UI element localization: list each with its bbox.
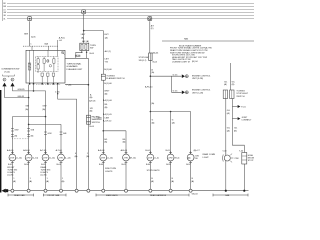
node switch right pin [86,52,87,53]
svg-text:A-F (1): A-F (1) [105,50,112,53]
svg-text:27W: 27W [59,158,63,160]
svg-text:30A: 30A [44,43,48,46]
svg-text:(A): (A) [86,155,89,158]
turn signal and hazard flasher unit box [26,50,65,83]
svg-text:SWITCH: SWITCH [92,122,101,124]
svg-text:G (T): G (T) [173,74,178,76]
svg-text:A-B-04: A-B-04 [98,149,105,152]
svg-text:(L-14): (L-14) [50,158,56,160]
wire left connector down to HMSL lamp [225,99,227,156]
wire lamp7 feed [149,112,151,155]
bus line 1 [7,2,254,4]
connector ticks col2 [27,129,30,137]
svg-text:(A): (A) [25,108,28,111]
svg-text:FRONT CAB: FRONT CAB [48,194,60,197]
svg-text:REAR: REAR [41,166,47,169]
svg-text:(L-14): (L-14) [33,158,39,160]
svg-text:LIGHT: LIGHT [203,157,210,159]
svg-text:(A): (A) [42,108,45,111]
svg-text:27W: 27W [43,158,47,160]
svg-text:(B): (B) [234,130,237,132]
wire switch right pin down [87,51,89,191]
ground bus [8,190,249,192]
bus labels [3,3,6,20]
flasher bottom pins [29,83,59,85]
svg-text:(A): (A) [227,129,230,132]
connector ticks col4 [60,132,63,134]
node G/B joins left turn wire [28,97,30,99]
svg-text:27W: 27W [168,158,172,160]
svg-text:(A): (A) [81,36,84,39]
svg-text:TURN SIGNAL: TURN SIGNAL [67,62,82,65]
legend text block [170,44,212,63]
svg-text:27W: 27W [148,158,152,160]
hazard switch column labels [104,50,112,71]
svg-text:(A): (A) [105,106,108,109]
svg-text:(A): (A) [105,92,108,95]
svg-text:CONNECT: CONNECT [241,120,252,122]
harness bracket 1 [8,194,34,197]
svg-text:GW: GW [3,12,6,14]
svg-text:FLASHER SWITCH: FLASHER SWITCH [106,77,125,80]
label STOPLIGHT SW [139,57,151,62]
svg-text:STOPLIGHT: STOPLIGHT [236,93,248,95]
lamp L4 rear turn right [56,149,71,191]
svg-text:REAR HARNESS: REAR HARNESS [150,194,167,197]
ground ring G5 [75,189,78,192]
lamp L6 side turn right [121,149,137,191]
svg-text:G/B-85: G/B-85 [18,96,25,98]
svg-text:(A): (A) [152,121,155,124]
svg-text:LB/R: LB/R [105,117,110,119]
svg-text:(R-14): (R-14) [130,158,136,160]
svg-text:(A): (A) [104,141,107,144]
ground bus arrow left [2,189,6,193]
node splitter side lamps [103,130,105,132]
svg-text:21W: 21W [234,158,238,160]
label 1/R above [90,108,94,113]
connector J2 on bus line 4 [82,10,86,14]
label TURN SW [90,45,96,50]
splitter H1 [12,116,45,118]
ground ring G1 [11,189,14,192]
svg-text:(A)-C7: (A)-C7 [194,149,201,152]
tick labels [14,129,67,137]
labels x76.6 near bottom [75,153,78,158]
svg-text:ENGINE CONTROL: ENGINE CONTROL [192,90,211,92]
svg-text:(T-04): (T-04) [4,71,10,73]
wire lamp4 feed [60,124,62,154]
svg-text:A-T-05: A-T-05 [40,149,47,152]
svg-text:A-F (A): A-F (A) [82,40,89,43]
svg-text:GL: GL [3,18,5,20]
wire lamp8 feed [170,112,172,155]
svg-text:(L-14): (L-14) [107,158,113,160]
hazard warning switch S2 on x88.4 [87,115,91,124]
ground node D2 [243,190,245,192]
svg-text:GB: GB [3,15,5,17]
connector J1 on bus line 6 [28,17,32,21]
turn signal switch S1 [80,43,89,50]
lamp name front turn [7,167,17,177]
inline connector row above flasher [23,45,58,47]
svg-text:(B): (B) [232,84,235,86]
lamp L7 stoplight left [145,150,159,191]
flasher switch S3 on x103.3 [101,74,105,80]
svg-text:(A): (A) [227,112,230,115]
svg-text:BR/Y: BR/Y [105,91,110,93]
wire flasher right edge to switch column [65,84,88,86]
svg-text:UNIT (C-08): UNIT (C-08) [192,92,203,94]
svg-text:(A): (A) [62,180,65,183]
connector J3 on bus line 6 [148,17,152,21]
svg-text:(A): (A) [105,36,108,39]
svg-text:SWITCH: SWITCH [236,96,245,98]
svg-text:27W: 27W [10,158,14,160]
svg-text:G/B: G/B [25,106,29,108]
svg-text:(A): (A) [90,110,93,113]
lamp L1 front turn left [7,149,22,191]
lamp L2 front turn right [23,149,38,191]
svg-text:TOWING: TOWING [236,90,245,92]
node H2 left [28,124,30,126]
page border black bar [0,90,1,193]
combination sw bracket [3,75,15,78]
lamp L5 side turn left [98,149,113,191]
svg-text:ENGINE CONTROL: ENGINE CONTROL [192,75,211,77]
splitter H2 [29,123,61,125]
svg-text:B-(1)-06: B-(1)-06 [104,69,112,71]
svg-text:(A): (A) [188,157,191,160]
svg-text:(A): (A) [46,180,49,183]
svg-text:(L-14): (L-14) [16,158,22,160]
label TURN SIGNAL & HAZARD FLASHER UNIT [67,62,83,71]
connector arrow B [10,83,14,87]
lamp L3 rear turn left [40,149,55,191]
svg-text:LICENSE LIGHT 67: LICENSE LIGHT 67 [172,61,191,63]
svg-text:A-Fb-14: A-Fb-14 [145,85,153,88]
wire right connector down [232,99,244,153]
tap F-01 [232,106,237,108]
svg-text:(B) 04: (B) 04 [192,61,198,63]
svg-text:A-F(1)-05: A-F(1)-05 [103,113,113,116]
combination sw pin G/W [3,78,6,81]
svg-text:REAR COMB: REAR COMB [203,153,216,156]
svg-text:GB-04: GB-04 [192,194,199,196]
node switch left pin [81,52,82,53]
COMBINATION SW label [1,68,19,74]
node H1 right [45,116,47,118]
ground ring G7 [102,189,105,192]
stoplight switch connector left [223,90,227,99]
ground node D1 [225,190,227,192]
node flasher pin to G/W wire [33,90,35,92]
bus line 5 [7,15,254,17]
svg-text:A-B-04: A-B-04 [23,149,30,152]
pin drop 2 into flasher [48,46,50,50]
wire lamp2 feed [28,124,30,154]
label ENGINE CONTROL UNIT 1 [192,75,211,80]
labels on column x88.4 [89,93,96,102]
svg-text:LB/Y: LB/Y [104,34,109,36]
wire lamp3 feed [45,117,47,155]
ground ring G6 [87,189,90,192]
wire J3 down to stoplight switch [149,21,151,53]
svg-text:(R-4): (R-4) [175,158,180,160]
harness bracket 3 [96,194,189,197]
svg-text:(B)-04: (B)-04 [153,52,160,54]
pin drop 1 into flasher [31,46,33,50]
svg-text:UNIT (F-2B): UNIT (F-2B) [192,78,203,80]
pin drop 3 into flasher [57,40,59,50]
dashed connector link [12,138,28,140]
ground ring G11 [189,189,192,192]
combination sw pin G/B [11,78,14,81]
svg-text:(A): (A) [191,180,194,183]
pin labels stop cols [151,178,194,183]
lamp name rear turn [41,166,51,177]
svg-text:(A): (A) [75,155,78,158]
wire flasher pin x33.5 down [33,85,35,91]
tap joint connector [232,118,237,120]
svg-text:STOP: STOP [248,160,254,162]
svg-text:(L-14): (L-14) [65,158,71,160]
node stop splitter [150,111,152,113]
svg-text:FLASHER UNIT: FLASHER UNIT [67,68,83,71]
svg-text:Y/G: Y/G [105,61,109,63]
svg-text:(A): (A) [123,141,126,144]
wire lamp9 feed [190,112,192,155]
svg-text:(A): (A) [13,180,16,183]
feed labels side lamps [104,139,126,144]
ground ring G10 [169,189,172,192]
wire label LB/Y right [104,34,109,39]
pin labels S4 [153,52,160,63]
svg-text:CAB: CAB [225,194,230,197]
node W1 junction [83,30,85,32]
wire tap to ECU arrows [150,76,181,92]
label right of switch boxes [236,90,248,98]
lamp L10 high mount stoplight [222,150,238,190]
wire lamp6 feed [125,131,127,154]
svg-text:& HAZARD: & HAZARD [67,65,78,68]
labels (A) above H1 cols [25,106,46,111]
label A-F(1)-04 [59,37,65,42]
labels G/L pair 1 [227,110,231,115]
wire flasher ground pin to right ground run [58,85,77,191]
svg-text:REAR CAB: REAR CAB [14,194,25,197]
legend separator line [162,40,254,42]
wire lamp1 feed [11,117,13,155]
svg-text:A-B-05: A-B-05 [7,149,14,152]
stoplight switch connector right [230,90,234,99]
ground ring G3 [44,189,47,192]
bus line 3 [7,9,254,11]
page border top-left [2,0,4,21]
wire S4 down [149,61,151,112]
harness bracket 2 [43,194,66,197]
svg-text:(A): (A) [224,83,227,86]
svg-text:21W: 21W [195,155,199,157]
wire legend to stop switch 2 [229,63,231,90]
label right of S3 [106,76,125,81]
label right of S2 [92,116,102,124]
svg-text:(A): (A) [151,180,154,183]
svg-text:(L) (R): (L) (R) [41,175,47,177]
labels below S3 [97,83,113,123]
arrow to ECU 2 [182,91,185,95]
pin row dotted right of flasher bottom [36,83,61,85]
node join at x88.4 [88,84,90,86]
connector ticks col1 [11,129,14,137]
svg-text:G/W-85: G/W-85 [18,89,26,91]
svg-text:27W: 27W [26,158,30,160]
svg-text:LIGHTS: LIGHTS [105,171,113,173]
connector ticks col3 [44,132,47,134]
harness bracket 4 [213,194,248,197]
svg-text:SW: SW [90,48,93,50]
svg-text:LB/Y: LB/Y [81,34,86,36]
flasher internal circuit [28,50,64,83]
wire label A/T [151,24,155,30]
svg-text:LB/R: LB/R [97,117,102,119]
ground ring G2 [27,189,30,192]
arrow to ECU 1 [182,74,185,78]
bus line 6 [7,18,254,20]
svg-text:A-F-06: A-F-06 [89,100,96,103]
lamp name side turn [105,168,117,173]
lamp L8 stoplight right [166,150,180,191]
svg-text:A-F(1)-06: A-F(1)-06 [103,99,113,102]
pin labels bottom cols [13,178,65,183]
high mount stoplight connector box [239,150,256,190]
svg-text:G/W: G/W [48,133,52,135]
wire lamp5 feed [102,131,104,154]
svg-text:COMBINATION SW: COMBINATION SW [1,68,19,71]
stoplight switch S4 [149,53,152,61]
connector arrow A [2,83,6,87]
wire S3 down to splitter [102,80,104,131]
splitter H4 stoplights [150,111,190,113]
svg-text:G/B: G/B [63,133,67,135]
ground ring G4 [60,189,63,192]
svg-text:(A): (A) [151,71,154,74]
bus line 4 [7,11,254,13]
svg-text:1 (B): 1 (B) [55,92,60,94]
svg-text:(A): (A) [172,121,175,124]
wire flasher pin x28.6 down to H2 [28,85,30,125]
svg-text:B/W: B/W [24,34,28,36]
svg-text:A-B-05: A-B-05 [121,149,128,152]
svg-text:JOINT: JOINT [241,117,248,119]
svg-text:5W: 5W [195,158,198,160]
svg-text:SW (F-7): SW (F-7) [139,60,147,62]
svg-text:27W: 27W [101,158,105,160]
svg-text:G/W: G/W [42,106,46,108]
wire switch left pin to flasher unit [65,51,88,59]
labels above switch boxes [224,81,236,86]
svg-text:A-C/F-10: A-C/F-10 [103,120,112,123]
wire G/B from arrow A [5,86,29,97]
svg-text:(A): (A) [29,180,32,183]
svg-text:B-(1)-06: B-(1)-06 [104,83,112,85]
svg-text:G/B: G/B [31,129,35,131]
svg-text:(L) (R): (L) (R) [7,175,13,177]
stop feed labels [152,120,175,125]
bus line 2 [7,6,254,8]
ground ring G9 [149,189,152,192]
svg-text:(L-4): (L-4) [154,158,159,160]
svg-text:STOPLIGHTS: STOPLIGHTS [147,170,161,172]
svg-text:(B): (B) [31,135,34,137]
svg-text:(F): (F) [151,28,154,30]
wire label LB/Y left [81,34,86,39]
label A (A) [151,68,154,74]
pin labels above flasher [30,43,48,46]
svg-text:(A): (A) [90,96,93,99]
wire from J2 down [83,14,85,43]
svg-text:(A): (A) [151,102,154,105]
svg-text:LB/Y: LB/Y [105,59,110,61]
node H4 mid [170,111,172,113]
node stop tap [150,75,152,77]
svg-text:(B): (B) [14,135,17,137]
wire G/W from arrow B [13,86,46,116]
splitter H3 [103,130,126,132]
lamp L9 rear combo [186,149,215,191]
svg-text:27W: 27W [124,158,128,160]
ground ring G8 [125,189,128,192]
svg-text:MAIN HARN: MAIN HARN [106,194,118,197]
wire from J1 down to flasher unit [29,21,31,46]
svg-text:A-T-04: A-T-04 [56,149,63,152]
node label on ground pin [57,93,58,94]
svg-text:(A): (A) [171,180,174,183]
labels x88.4 near bottom [86,153,89,158]
labels G/L pair 2 [227,128,238,133]
label ENGINE CONTROL UNIT 2 [192,90,211,95]
svg-text:G/W: G/W [14,129,18,131]
svg-text:G (T): G (T) [173,91,178,93]
wire W1 branch to hazard switch column [84,31,104,75]
